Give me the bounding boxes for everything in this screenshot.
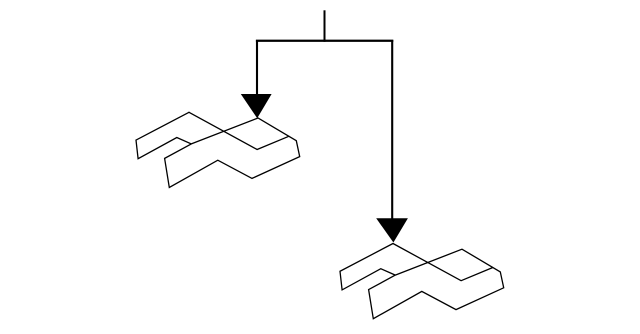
- chair conformation shape 2 (lower right) outline: [340, 244, 504, 319]
- arrowhead onto left chair: [241, 94, 272, 118]
- connector stub (top vertical line): [324, 10, 326, 42]
- chair conformation shape 1 (upper left) outline: [136, 112, 300, 187]
- chair 1 inner hidden edges: [189, 112, 289, 149]
- chair 2 inner hidden edges: [393, 244, 493, 281]
- wire drop to right chair: [391, 40, 393, 224]
- arrowhead onto right chair: [376, 218, 408, 242]
- wire drop to left chair: [256, 40, 258, 100]
- connector horizontal bar: [256, 40, 393, 42]
